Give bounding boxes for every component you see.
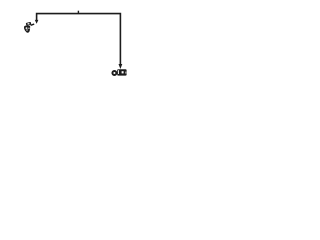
connector A housing	[24, 26, 30, 33]
connector B body	[117, 69, 126, 75]
arrow to connector A	[35, 20, 39, 24]
wire	[37, 14, 121, 65]
connector A stub to arrow	[31, 24, 35, 25]
connector A cap	[26, 22, 32, 26]
connector B ring	[112, 71, 116, 75]
arrow to connector B	[119, 64, 123, 69]
wire tick	[77, 11, 79, 14]
